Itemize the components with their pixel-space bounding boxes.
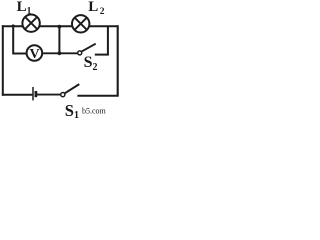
switch S2 (78, 44, 96, 55)
lamp L1 (22, 15, 39, 32)
wire top (2, 25, 119, 27)
svg-text:b5.com: b5.com (82, 107, 107, 116)
wire S2 fixed contact (95, 54, 109, 56)
lamp L2 (72, 15, 89, 32)
battery (33, 87, 36, 100)
junction blob at voltmeter branch top (12, 24, 15, 27)
wire voltmeter to node (43, 52, 78, 54)
junction dot middle (58, 51, 62, 55)
wire left vertical (2, 25, 4, 95)
wire bottom middle (battery to S1) (37, 94, 61, 96)
wire node vertical (between lamps down to middle row) (58, 26, 60, 53)
wire right vertical (117, 25, 119, 96)
junction dot top (58, 25, 62, 29)
switch S1 (61, 84, 80, 97)
wire voltmeter branch (down from top wire, to voltmeter) (13, 25, 26, 53)
voltmeter V (27, 45, 43, 62)
wire S2 branch vertical (top wire down to contact) (107, 26, 109, 54)
wire bottom left (to battery) (2, 94, 33, 96)
wire bottom right (S1 to right corner) (77, 95, 118, 97)
svg-text:V: V (29, 47, 39, 62)
